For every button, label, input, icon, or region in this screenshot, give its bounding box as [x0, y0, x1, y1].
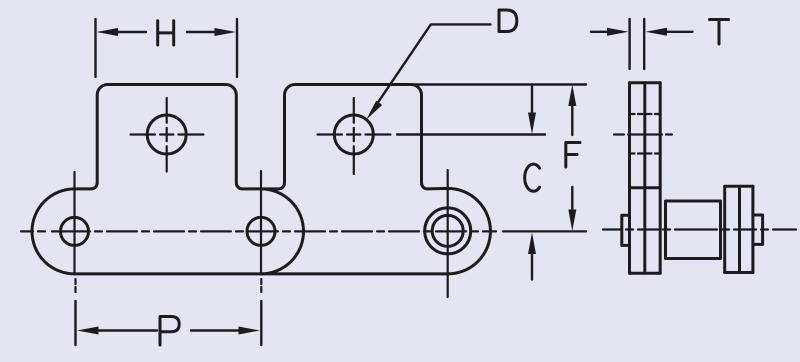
dimension P left arrow — [95, 329, 157, 331]
end view: hole centerline — [614, 133, 672, 135]
extension line from hole 2 centerline — [397, 133, 545, 135]
attachment hole 2 — [334, 115, 373, 154]
dimension P right arrow — [191, 329, 242, 331]
roller vertical centerline — [447, 170, 449, 297]
top extension line from tab top edge — [411, 83, 586, 85]
roller pin circle — [432, 215, 463, 246]
link plate outline with two bent-up attachment tabs (side view) — [32, 85, 490, 274]
dimension C lower arrow (points up) — [531, 250, 533, 280]
dimension T extension line right — [643, 19, 645, 69]
end view: attachment tab plate (edge-on) outer line — [628, 83, 631, 273]
pin 2 vertical centerline — [260, 171, 262, 292]
dimension T extension line left — [628, 19, 630, 69]
end view: roller rectangle — [666, 201, 721, 259]
pin 2 circle — [247, 217, 275, 245]
end view: left pin end stub — [622, 215, 630, 245]
dimension H left arrow — [114, 31, 146, 33]
end view: right plate pair top and bottom edges — [725, 186, 753, 272]
pin 1 circle — [61, 217, 89, 245]
dimension H right arrow — [187, 31, 218, 33]
label D — [499, 10, 517, 32]
end view: hidden hole lower edge — [630, 152, 661, 154]
main horizontal centerline (side view) — [21, 230, 586, 232]
dimension F upper arrow (points up) — [571, 100, 573, 135]
attachment hole 1 — [147, 115, 186, 154]
label H — [158, 21, 174, 45]
dimension T right arrow (points left) — [662, 31, 693, 33]
end view: right pin end stub — [753, 215, 763, 244]
hole 1 center mark — [131, 98, 204, 172]
end view: plate bottom edge — [630, 272, 661, 275]
roller circle — [425, 208, 471, 254]
end view: right plate pair outer lines — [725, 186, 753, 272]
end view: inner plate line — [659, 83, 662, 273]
dimension H extension line right — [236, 19, 238, 77]
overlapped middle link plate lobe arc — [261, 189, 304, 274]
dimension F lower arrow (points down) — [571, 187, 573, 212]
end view: hidden hole upper edge — [630, 113, 661, 115]
dimension C upper arrow (points down) — [531, 86, 533, 116]
end view: inner plate top edge line across tab — [630, 186, 661, 189]
label P — [160, 317, 179, 346]
dimension P extension line right — [260, 301, 262, 345]
label C — [525, 164, 540, 191]
dimension T left arrow (points right) — [591, 31, 612, 33]
end view: tab plate inner line — [643, 83, 646, 273]
leader line for D — [373, 24, 491, 110]
pin 1 vertical centerline — [75, 172, 76, 292]
label F — [566, 143, 580, 168]
label T — [710, 20, 729, 45]
end view: tab plate top edge — [630, 81, 661, 84]
dimension P extension line left — [74, 301, 76, 345]
end view: horizontal centerline — [603, 228, 796, 230]
hole 2 center mark — [318, 98, 391, 174]
dimension H extension line left — [94, 19, 96, 77]
